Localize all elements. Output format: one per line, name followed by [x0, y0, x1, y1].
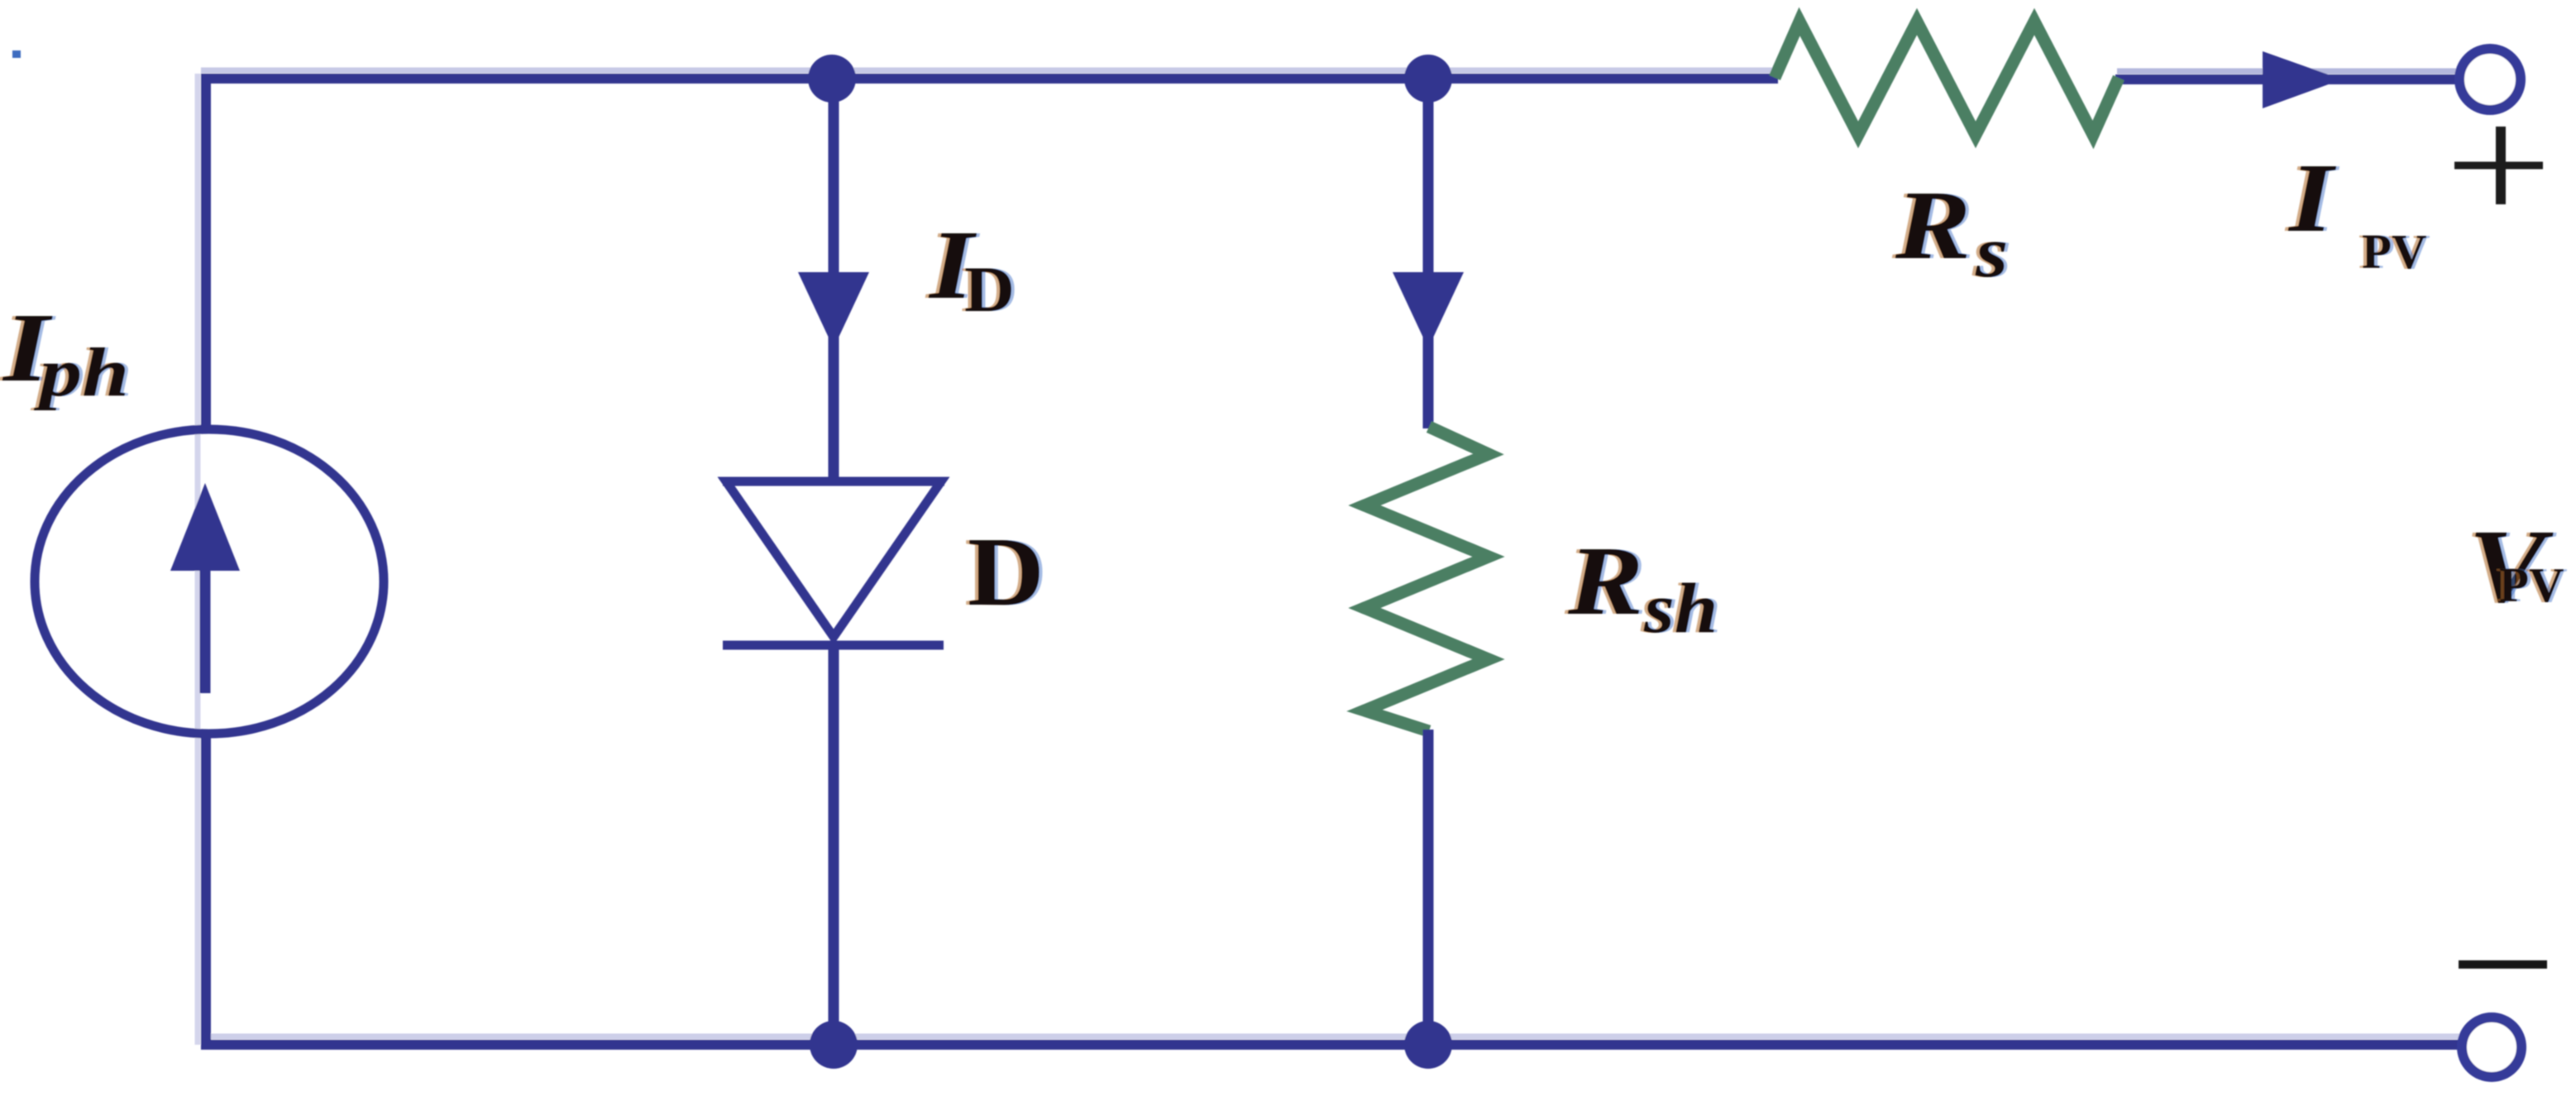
minus sign	[2459, 960, 2547, 969]
svg-text:ph: ph	[33, 334, 129, 410]
arrow ID on diode branch	[798, 272, 869, 348]
current source Iph ellipse	[35, 429, 384, 734]
current source arrow head	[170, 483, 240, 571]
wire left vertical halo	[195, 74, 201, 1045]
wire left vertical	[201, 74, 211, 431]
resistor Rsh zigzag	[1364, 427, 1489, 731]
label Rs	[1891, 170, 1974, 280]
wire bottom bus halo	[201, 1034, 2461, 1040]
label Iph	[0, 294, 56, 402]
diode D triangle	[726, 481, 941, 637]
label VPV	[2465, 508, 2558, 625]
svg-text:s: s	[1975, 212, 2008, 292]
svg-text:PV: PV	[2362, 224, 2427, 279]
svg-text:I: I	[2287, 143, 2337, 252]
label D	[964, 517, 1048, 626]
plus sign	[2454, 127, 2543, 204]
resistor Rs zigzag	[1775, 22, 2119, 135]
stray blue dot artifact top-left	[12, 50, 21, 58]
node junction dot bottom Rsh	[1404, 1021, 1452, 1069]
svg-text:R: R	[1895, 170, 1971, 280]
wire bottom bus	[201, 1040, 2461, 1050]
label VPV subscript PV	[2496, 558, 2568, 612]
wire top bus halo left	[201, 68, 1776, 74]
wire top right (Rs to terminal)	[2115, 74, 2459, 84]
label IPV subscript PV	[2359, 224, 2430, 279]
svg-text:D: D	[968, 517, 1044, 626]
label ID	[925, 210, 981, 319]
label Rsh subscript sh	[1640, 568, 1721, 648]
wire top bus	[201, 74, 1778, 84]
label ID subscript D	[961, 254, 1018, 325]
arrow IPV output current	[2263, 51, 2342, 108]
svg-text:R: R	[1567, 526, 1643, 635]
terminal negative circle	[2462, 1017, 2521, 1077]
current source arrow shaft	[200, 562, 211, 693]
arrow on Rsh branch	[1393, 272, 1464, 348]
diode cathode bar	[723, 641, 944, 650]
svg-text:PV: PV	[2499, 558, 2564, 612]
diode top bar	[723, 477, 944, 486]
label Rs subscript s	[1971, 212, 2011, 292]
wire Rsh branch lower	[1423, 730, 1434, 1045]
label Iph subscript ph	[30, 334, 132, 410]
terminal positive circle	[2459, 49, 2521, 110]
node junction dot bottom diode	[810, 1021, 858, 1069]
wire Rsh branch upper	[1423, 79, 1434, 428]
svg-text:sh: sh	[1643, 568, 1718, 648]
wire diode branch lower	[829, 645, 839, 1045]
wire top bus halo right	[2117, 69, 2458, 74]
wire left vertical lower	[201, 731, 211, 1045]
wire diode branch upper	[829, 79, 839, 481]
svg-text:D: D	[964, 254, 1015, 325]
node junction dot top diode	[808, 55, 856, 103]
label IPV	[2284, 143, 2340, 252]
label Rsh	[1564, 526, 1646, 635]
node junction dot top Rsh	[1404, 55, 1452, 103]
